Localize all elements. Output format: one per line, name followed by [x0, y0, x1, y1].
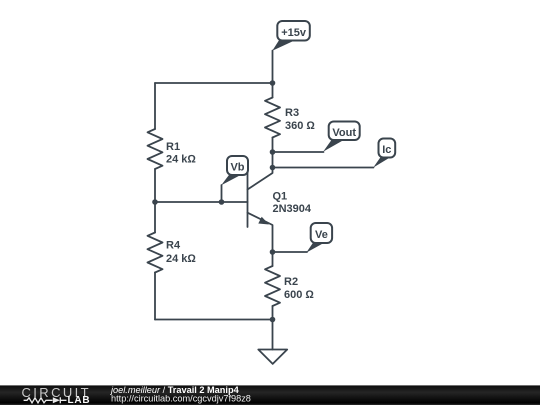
resistor R1 [148, 129, 163, 169]
label R1 24 kΩ [166, 141, 196, 166]
junction dot at supply node [270, 80, 276, 86]
svg-text:600 Ω: 600 Ω [284, 289, 314, 301]
junction dot at ground rail [270, 317, 276, 323]
wire: top rail from left branch to supply node [155, 82, 273, 84]
transistor Q1 emitter arrowhead [258, 217, 269, 225]
junction dot at emitter node [270, 249, 276, 255]
svg-text:LAB: LAB [68, 395, 91, 405]
wire: ground drop [272, 320, 274, 350]
wire: Ic stub [273, 167, 374, 169]
transistor Q1 emitter with arrow [248, 213, 273, 252]
svg-text:+15v: +15v [281, 27, 307, 39]
node Vb [221, 156, 248, 185]
wire: R2 bottom to ground rail [272, 306, 274, 320]
wire: Vout junction to collector junction [272, 152, 274, 168]
svg-text:http://circuitlab.com/cgcvdjv7: http://circuitlab.com/cgcvdjv7f98z8 [111, 394, 251, 404]
resistor R4 [148, 233, 163, 273]
svg-text:Q1: Q1 [273, 191, 288, 203]
svg-text:Ve: Ve [315, 229, 328, 241]
ground [258, 350, 287, 364]
svg-text:Ic: Ic [382, 144, 391, 156]
wire: base rail [155, 201, 248, 203]
svg-text:R3: R3 [285, 107, 299, 119]
node +15v [272, 21, 310, 51]
svg-text:24 kΩ: 24 kΩ [166, 154, 196, 166]
svg-text:R1: R1 [166, 141, 180, 153]
svg-text:24 kΩ: 24 kΩ [166, 253, 196, 265]
node Ve [306, 223, 332, 253]
wire: R1 bottom to base rail [154, 169, 156, 233]
wire: emitter junction drop to R2 [272, 252, 274, 266]
resistor R2 [265, 266, 280, 306]
svg-text:R4: R4 [166, 240, 181, 252]
junction dot at Vout node [270, 149, 276, 155]
wire: R3 bottom to Vout junction [272, 138, 274, 153]
junction dot at Vb node [219, 199, 225, 205]
transistor Q1 base bar [247, 172, 249, 227]
svg-text:360 Ω: 360 Ω [285, 120, 315, 132]
junction dot at collector node [270, 165, 276, 171]
label R2 600 Ω [284, 276, 314, 301]
svg-text:Vb: Vb [230, 162, 244, 174]
node Ic [373, 139, 395, 168]
wire: R4 bottom to bottom rail [154, 273, 156, 320]
wire: Vout stub [273, 151, 324, 153]
svg-text:R2: R2 [284, 276, 298, 288]
wire: collector stub into Q1 [248, 168, 273, 190]
footer logo resistor squiggle and diode [24, 397, 67, 403]
wire: +15v supply drop to top junction [272, 51, 274, 98]
footer bar [0, 385, 540, 405]
junction dot at base rail left [152, 199, 158, 205]
resistor R3 [265, 98, 280, 138]
wire: Vb stub [221, 185, 223, 202]
svg-text:2N3904: 2N3904 [273, 203, 312, 215]
wire: bottom rail [155, 319, 273, 321]
label Q1 2N3904 [273, 191, 312, 216]
wire: left branch top [154, 83, 156, 129]
wire: Ve stub [273, 251, 308, 253]
label R3 360 Ω [285, 107, 315, 132]
svg-text:Vout: Vout [332, 127, 356, 139]
node Vout [323, 122, 360, 152]
label R4 24 kΩ [166, 240, 196, 266]
